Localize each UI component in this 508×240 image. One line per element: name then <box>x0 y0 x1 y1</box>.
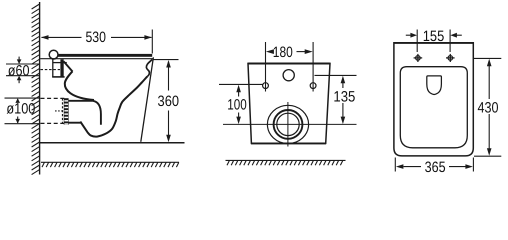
dimension 135 <box>333 76 355 124</box>
dimension 360 <box>153 60 179 143</box>
inner seat outline <box>400 67 467 148</box>
dimension 430 <box>478 59 499 156</box>
hinge circle <box>49 50 58 59</box>
inlet circle <box>283 70 294 81</box>
toilet body front outline <box>248 63 330 143</box>
drain teeth strip <box>64 98 69 125</box>
rim hook <box>146 60 152 77</box>
430 extension lines <box>474 57 501 59</box>
rim line <box>40 58 153 60</box>
svg-text:ø60: ø60 <box>8 62 30 79</box>
180 extension lines <box>265 42 267 92</box>
slant front extension line <box>141 57 154 142</box>
bolt hole left <box>263 83 269 89</box>
dimension o100 <box>5 98 40 124</box>
drain middle ring <box>274 110 303 139</box>
svg-text:135: 135 <box>333 88 355 105</box>
svg-text:530: 530 <box>85 29 106 46</box>
100 top extension <box>219 83 263 85</box>
svg-text:365: 365 <box>425 159 446 176</box>
svg-text:360: 360 <box>158 93 180 110</box>
wall <box>39 2 41 175</box>
135 top extension <box>315 74 357 76</box>
155 extension lines <box>416 30 418 53</box>
floor hatch strip <box>41 162 179 167</box>
dashed centerline o100 <box>55 110 64 112</box>
wall hatching <box>32 4 40 175</box>
drain inner circle <box>277 113 299 135</box>
inlet bracket <box>52 59 72 77</box>
bowl outer front curve <box>80 76 147 136</box>
seat bar <box>58 54 153 57</box>
svg-text:ø100: ø100 <box>6 101 35 118</box>
svg-text:155: 155 <box>423 28 445 45</box>
svg-text:100: 100 <box>227 97 247 114</box>
dashed box lines (drain) <box>41 98 65 123</box>
middle floor hatch <box>226 160 346 165</box>
svg-text:430: 430 <box>478 100 499 117</box>
dimension o60 <box>6 57 39 84</box>
dimension 530 <box>41 29 152 54</box>
365 extension lines <box>394 158 396 172</box>
flush shield shape <box>427 76 442 95</box>
drain vertical centerline <box>287 102 289 147</box>
outer body (top view) <box>394 43 473 156</box>
trap top edge + funnel <box>69 101 101 125</box>
dimension 365 <box>396 159 473 176</box>
drain outer ellipse <box>267 105 308 143</box>
bowl S-curve (inner rear) <box>65 71 94 100</box>
bolt cross left <box>414 54 423 62</box>
dimension 180 <box>266 44 313 61</box>
trap bottom edge <box>69 122 81 124</box>
dimension 100 <box>227 85 247 124</box>
floor line <box>39 142 185 144</box>
dimension 155 <box>406 28 462 45</box>
svg-text:180: 180 <box>273 44 293 61</box>
bolt hole right <box>310 83 316 89</box>
bolt cross right <box>446 54 455 62</box>
dashed centerline o60 <box>41 69 61 71</box>
drain horizontal centerline <box>223 123 357 125</box>
dashed vertical at teeth left <box>62 98 64 123</box>
